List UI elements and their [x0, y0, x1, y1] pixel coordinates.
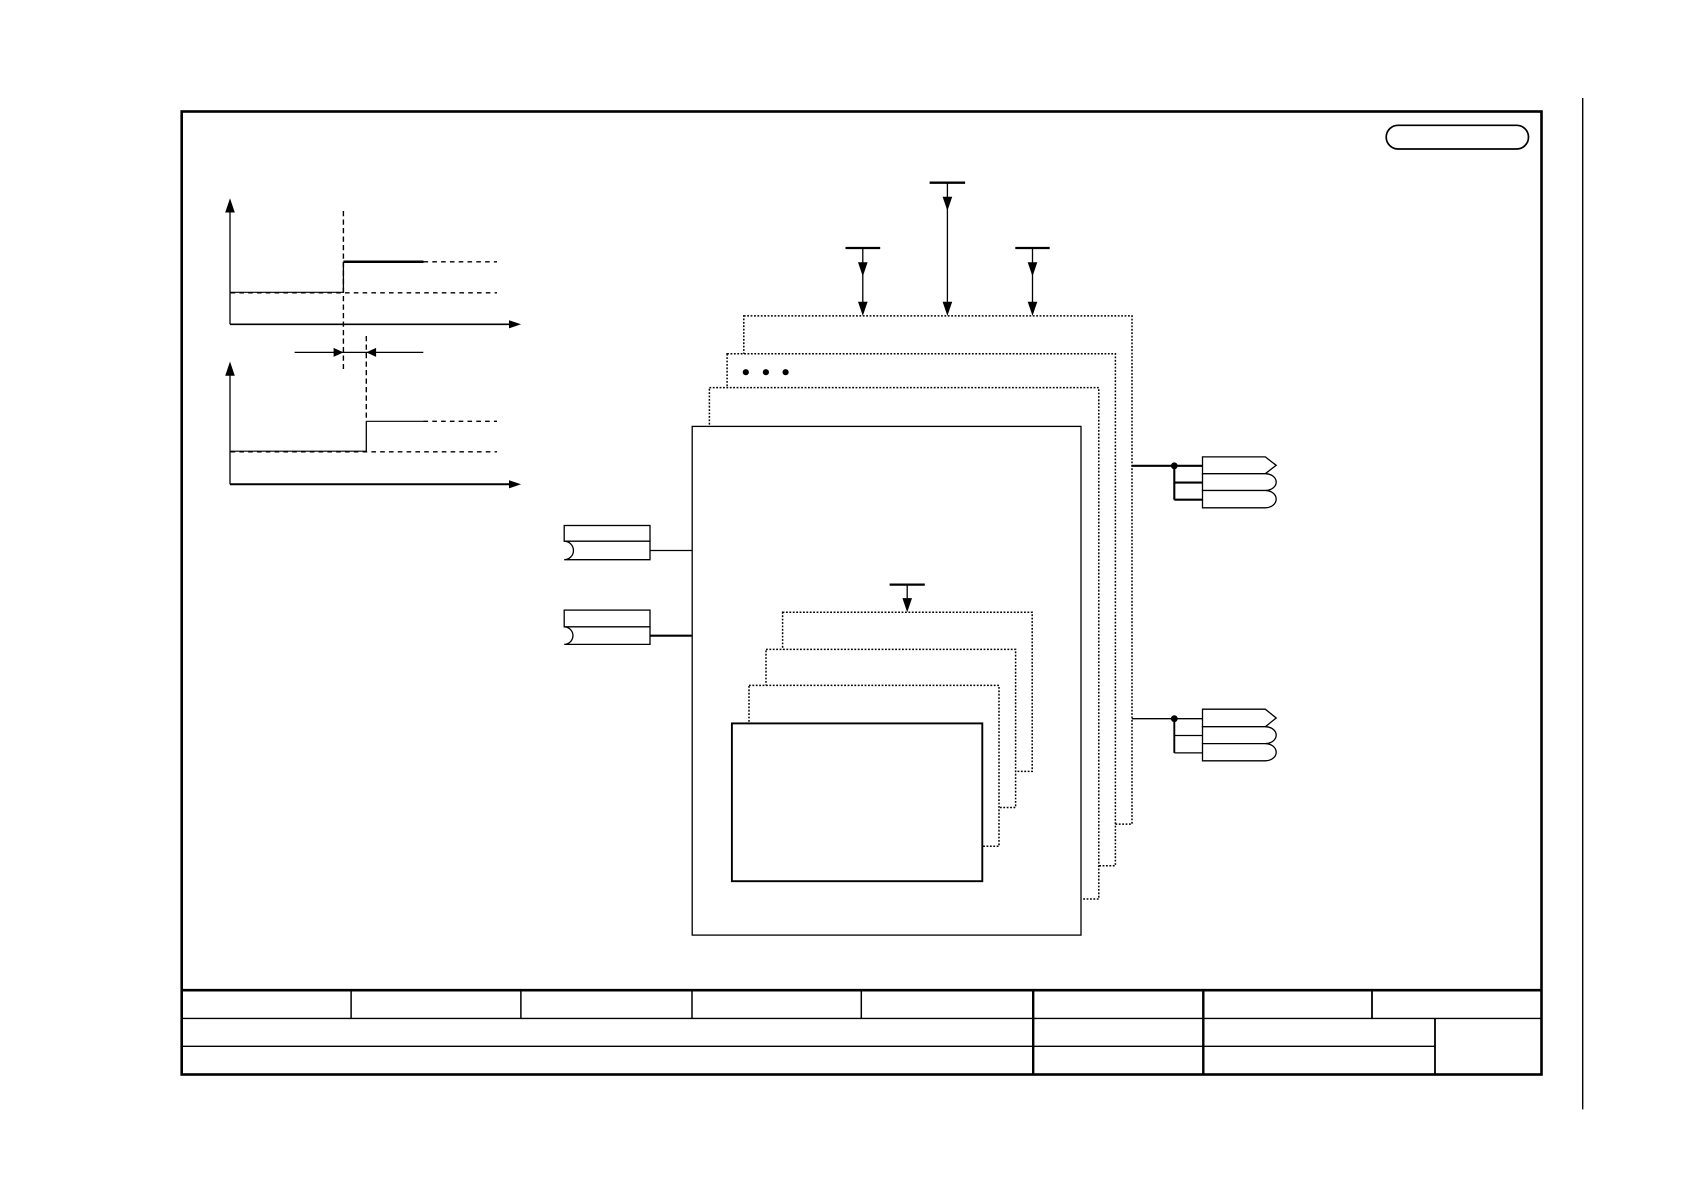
title block divider 4: [860, 990, 862, 1018]
dotted box 1: [744, 316, 1132, 824]
output node 1: [1171, 462, 1178, 469]
output connector 1 round tag b: [1203, 491, 1277, 508]
frame side rail: [1582, 98, 1584, 1109]
graph 2 high level segment: [366, 420, 423, 422]
dotted box 2: [727, 354, 1115, 866]
graph 2 low level segment: [231, 450, 367, 452]
graph 1 low level segment: [231, 291, 344, 293]
inner dotted box B: [766, 649, 1016, 807]
output connector 2 arrow tag: [1203, 709, 1277, 727]
output wire 2: [1132, 718, 1203, 720]
inner input arrow: [890, 585, 925, 613]
title block divider 1: [350, 990, 352, 1018]
output wire 1: [1132, 465, 1203, 467]
delay dimension line: [295, 348, 424, 357]
inner dotted box C: [749, 685, 999, 846]
ellipsis dots: [743, 369, 789, 375]
title block divider 5: [1371, 990, 1373, 1018]
wire from connector A: [650, 550, 692, 552]
graph 2 step edge: [365, 421, 367, 452]
graph 1 y-axis: [225, 198, 235, 324]
output branch stem 1: [1173, 466, 1175, 500]
title block column line B: [1202, 990, 1204, 1074]
graph 2 dashed low level: [231, 451, 497, 453]
inner solid box: [732, 723, 982, 881]
main block box: [692, 426, 1081, 935]
graph 2 x-axis: [230, 480, 521, 488]
output branch wire 2b: [1174, 752, 1202, 754]
graph 1 dashed high level: [424, 261, 498, 263]
title block top border: [182, 989, 1542, 992]
frame border: [182, 112, 1542, 1075]
title block row line 1: [182, 1017, 1542, 1019]
graph 1 step edge: [342, 262, 344, 293]
output connector 1 round tag a: [1203, 474, 1277, 491]
wire from connector B: [650, 635, 692, 637]
output connector 2 round tag a: [1203, 727, 1277, 744]
label stadium: [1386, 125, 1528, 149]
title block row line 2: [182, 1045, 1435, 1047]
output connector 2 round tag b: [1203, 744, 1277, 761]
graph 2 y-axis: [225, 362, 235, 485]
graph 1 x-axis: [230, 320, 521, 328]
graph 1 high level segment: [343, 261, 423, 264]
left connector B body: [564, 627, 650, 645]
output branch wire 1a: [1174, 482, 1202, 484]
title block column line A: [1032, 990, 1034, 1074]
graph 2 dashed high level: [424, 420, 498, 422]
dotted box 3: [709, 388, 1098, 899]
output branch wire 1b: [1174, 499, 1202, 501]
output node 2: [1171, 715, 1178, 722]
graph 1 dashed step-time line: [342, 211, 344, 369]
title block column line C: [1434, 1018, 1436, 1074]
left connector A body: [564, 541, 650, 560]
input arrow 1: [846, 248, 881, 316]
output branch wire 2a: [1174, 735, 1202, 737]
left connector B top rect: [564, 610, 650, 627]
title block divider 2: [520, 990, 522, 1018]
input arrow 2: [930, 183, 966, 316]
output connector 1 arrow tag: [1203, 457, 1277, 474]
title block divider 3: [691, 990, 693, 1018]
inner dotted box A: [783, 612, 1033, 771]
left connector A top rect: [564, 526, 650, 542]
graph 1 dashed low level: [231, 292, 497, 294]
graph 2 dashed step-time line: [365, 336, 367, 421]
input arrow 3: [1015, 248, 1049, 316]
output branch stem 2: [1173, 719, 1175, 753]
